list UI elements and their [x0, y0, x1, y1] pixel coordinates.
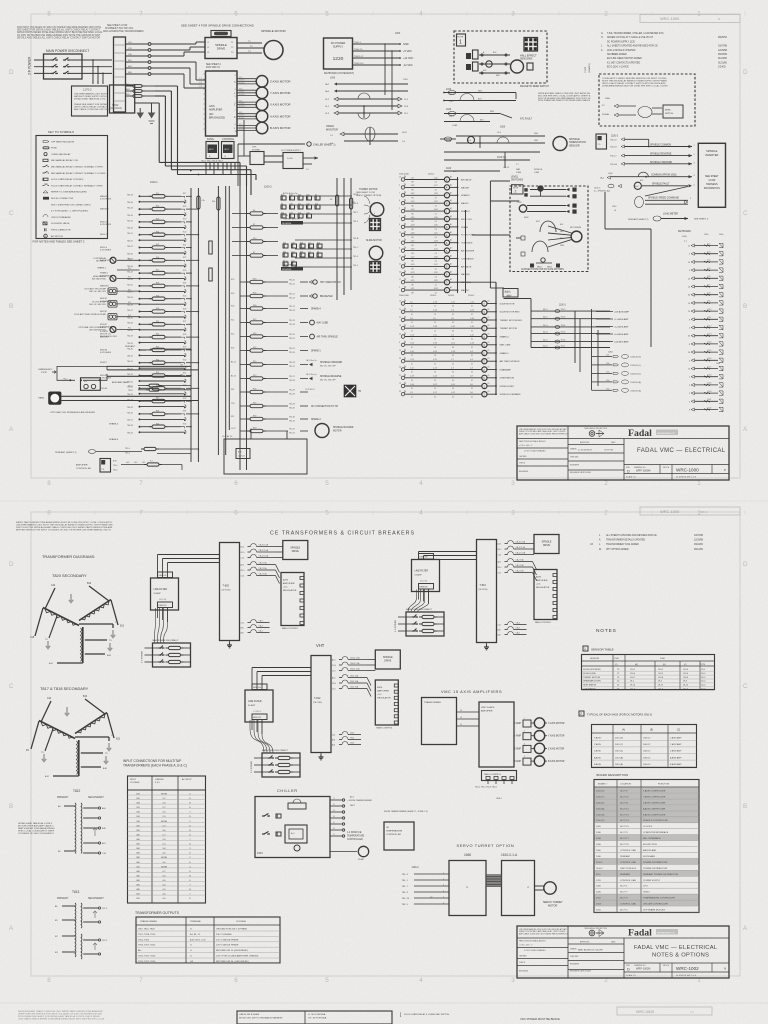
- svg-text:CHK: CHK: [252, 147, 257, 149]
- svg-text:REVERSE: REVERSE: [282, 269, 292, 271]
- svg-text:W2.0: W2.0: [498, 567, 502, 569]
- big outline corner: [604, 192, 606, 229]
- svg-text:K59: K59: [298, 195, 301, 197]
- fang wires to band: [61, 395, 191, 397]
- svg-text:01: 01: [471, 380, 473, 382]
- svg-text:F24: F24: [156, 359, 159, 361]
- svg-text:01: 01: [471, 322, 473, 324]
- secondary vertical winding: [77, 741, 78, 774]
- svg-text:T81-29: T81-29: [289, 394, 295, 396]
- group B row TURRET MOTOR: [401, 327, 404, 330]
- svg-text:(CE K1N6): (CE K1N6): [222, 590, 231, 592]
- mill interface row AIR VALVE: [401, 265, 404, 268]
- svg-text:SERVO TURRET OPTION: SERVO TURRET OPTION: [457, 843, 515, 848]
- svg-text:DL M NO M SHT 1 of 6: DL M NO M SHT 1 of 6: [676, 477, 696, 479]
- svg-text:,0-4 AXIS AMP: ,0-4 AXIS AMP: [614, 333, 629, 336]
- svg-text:REED: REED: [665, 110, 671, 112]
- svg-text:SPARE-5: SPARE-5: [109, 423, 119, 426]
- svg-text:PENDANT: PENDANT: [620, 873, 631, 876]
- group B row ORIENTATION: [401, 376, 404, 379]
- svg-text:3 Φ POWER: 3 Φ POWER: [141, 651, 144, 663]
- svg-text:04: 04: [435, 253, 437, 255]
- svg-text:TURRET MOTOR: TURRET MOTOR: [359, 189, 378, 191]
- svg-text:XFORMER T-812 TAP CFG: XFORMER T-812 TAP CFG: [105, 27, 134, 30]
- secondary taps: [79, 623, 113, 625]
- group B row TURRET MOTOR REV.: [401, 318, 404, 321]
- svg-text:11 4B: 11 4B: [283, 215, 288, 217]
- turret motor M-T: [370, 203, 384, 217]
- svg-text:DO NOT SCALE DRAWING: DO NOT SCALE DRAWING: [524, 949, 546, 952]
- svg-text:01: 01: [471, 339, 473, 341]
- wires disconnect to line filter T-810: [408, 590, 417, 613]
- svg-text:KEYBOARD: KEYBOARD: [643, 855, 656, 858]
- axis amp input wires L1 L2 L3: [198, 79, 206, 81]
- svg-text:1: 1: [689, 377, 690, 379]
- svg-text:20: 20: [688, 278, 690, 280]
- svg-text:PL2: PL2: [128, 328, 131, 330]
- svg-text:J11-4: J11-4: [630, 689, 636, 691]
- svg-text:T81-3: T81-3: [561, 317, 566, 319]
- center vertical buses: [239, 186, 241, 470]
- svg-text:● 1 POPULATED ○ 1 UNPOPULAT: ● 1 POPULATED ○ 1 UNPOPULATED: [51, 210, 89, 213]
- svg-text:2: 2: [604, 11, 608, 18]
- svg-text:M.: M.: [599, 549, 602, 551]
- svg-text:BRAKE/SAF: BRAKE/SAF: [320, 295, 333, 298]
- svg-text:8: 8: [399, 342, 400, 344]
- svg-text:CONNECTIONS FOR DC AXIS MOTORS: CONNECTIONS FOR DC AXIS MOTORS: [521, 268, 564, 271]
- svg-text:K30: K30: [300, 243, 303, 245]
- mill interface row SPARE-Z: [401, 209, 404, 212]
- svg-text:2: 2: [580, 712, 582, 716]
- svg-text:ECO-801 REED SWITCH ADDED: ECO-801 REED SWITCH ADDED: [607, 57, 642, 60]
- T812 primary leads: [64, 805, 75, 807]
- svg-text:MG3/L4: MG3/L4: [100, 247, 108, 249]
- svg-text:6: 6: [689, 270, 690, 272]
- svg-text:,0-B AXIS AMP: ,0-B AXIS AMP: [614, 341, 629, 344]
- svg-text:F10: F10: [253, 238, 256, 240]
- dc motor box C342 circle rows: [519, 205, 526, 212]
- wires line filter up to T-810 input: [418, 552, 420, 560]
- transformer T-820 box: [220, 543, 240, 641]
- svg-text:F29: F29: [156, 423, 159, 425]
- svg-text:CHECKED: CHECKED: [570, 457, 579, 459]
- svg-text:J-15: J-15: [470, 334, 474, 336]
- svg-text:SPINDLE: SPINDLE: [534, 169, 543, 171]
- svg-text:63 AMP: 63 AMP: [154, 592, 162, 595]
- svg-text:1100-2: 1100-2: [264, 186, 272, 189]
- svg-text:CHILLER: CHILLER: [277, 788, 298, 793]
- svg-text:8: 8: [689, 344, 690, 346]
- svg-text:SLIDE MOTOR: SLIDE MOTOR: [283, 265, 298, 267]
- svg-text:J-12: J-12: [410, 359, 414, 361]
- svg-text:M1G/S7: M1G/S7: [100, 324, 107, 326]
- row pair bus links 9: [186, 311, 198, 313]
- svg-text:J10-1: J10-1: [507, 295, 512, 297]
- svg-text:AC-5: AC-5: [543, 339, 547, 342]
- svg-text:ZONE AREA WIRING MUST BE DONE: ZONE AREA WIRING MUST BE DONE PER SPEC L…: [602, 85, 668, 88]
- svg-text:C341010 (Y): C341010 (Y): [630, 365, 641, 367]
- B axis motor M6: [237, 124, 256, 126]
- svg-text:K26: K26: [183, 308, 186, 310]
- svg-text:BRUSHLESS): BRUSHLESS): [209, 117, 225, 120]
- row pair lower wire 3: [141, 239, 185, 241]
- svg-text:TURRET MOTOR REV.: TURRET MOTOR REV.: [500, 320, 523, 322]
- svg-text:F11: F11: [156, 193, 159, 195]
- svg-text:SPINDLE FORWARD: SPINDLE FORWARD: [650, 161, 673, 164]
- svg-text:BLACK: BLACK: [239, 105, 245, 108]
- ACC connector box top: [596, 134, 607, 149]
- secondary vertical winding: [81, 628, 82, 661]
- key symbol row: MECHANICAL RELAY COIL: [43, 159, 48, 161]
- svg-text:C1.0: C1.0: [332, 671, 336, 673]
- svg-text:J10-9: J10-9: [683, 677, 689, 679]
- svg-text:K10: K10: [298, 213, 301, 215]
- svg-text:CB-2 15A: CB-2 15A: [350, 680, 359, 683]
- turret fuse row F6: [232, 213, 248, 215]
- svg-text:T80-44: T80-44: [127, 202, 133, 204]
- svg-text:1860: 1860: [464, 853, 471, 857]
- svg-text:2: 2: [604, 510, 608, 517]
- hall sensor circle: [511, 60, 524, 73]
- mill interface row MAG4(G): [401, 273, 404, 276]
- key symbol row: OVERLOAD RELAY: [44, 153, 47, 156]
- svg-text:11: 11: [399, 256, 401, 258]
- svg-text:ALL SHEETS UPDATED AND REVISED: ALL SHEETS UPDATED AND REVISED FOR CE: [607, 45, 658, 48]
- svg-text:A1.0: A1.0: [332, 659, 336, 662]
- svg-text:AIR VALVE: AIR VALVE: [461, 178, 472, 181]
- svg-text:AMP CABLE CONN USE ONLY RATED: AMP CABLE CONN USE ONLY RATED PARTS REFE…: [519, 432, 568, 435]
- svg-text:04: 04: [452, 363, 454, 365]
- svg-text:J-27: J-27: [434, 185, 438, 187]
- svg-text:K14: K14: [283, 243, 286, 245]
- T813 transformer symbol: [74, 903, 77, 957]
- svg-text:KEYBOARD: KEYBOARD: [678, 230, 691, 233]
- svg-text:21: 21: [399, 375, 401, 377]
- svg-text:MID ON - MID OFF: MID ON - MID OFF: [320, 380, 337, 382]
- svg-text:CB-3: CB-3: [350, 738, 354, 740]
- row pair lower wire 8: [141, 303, 185, 305]
- svg-text:J-33: J-33: [411, 193, 415, 195]
- svg-text:J5: J5: [333, 822, 335, 824]
- svg-text:SPINDLE FORWARD: SPINDLE FORWARD: [500, 393, 521, 396]
- svg-text:VMC 15 AXIS AMPLIFIERS: VMC 15 AXIS AMPLIFIERS: [441, 689, 502, 694]
- key symbol row: MOLEX CONNECTOR: [43, 197, 49, 200]
- svg-text:+5 VDC: +5 VDC: [403, 50, 412, 53]
- svg-text:REGULATOR: REGULATOR: [536, 586, 550, 589]
- svg-text:BEFORE SERVICE FOR INPUT VOLTA: BEFORE SERVICE FOR INPUT VOLTAGES OF 400…: [16, 529, 111, 532]
- svg-text:1A 53 Snu.Tip: 1A 53 Snu.Tip: [306, 359, 317, 362]
- svg-text:RETURN FOR 15 (GROUNDED): RETURN FOR 15 (GROUNDED): [216, 950, 248, 952]
- svg-text:K8: K8: [317, 252, 319, 254]
- svg-text:T80-24: T80-24: [127, 272, 133, 274]
- svg-text:MILL INTERFACE: MILL INTERFACE: [643, 837, 661, 840]
- svg-text:1010 (Y): 1010 (Y): [596, 797, 605, 799]
- svg-text:J-15: J-15: [451, 384, 455, 386]
- svg-text:J-16: J-16: [410, 384, 414, 386]
- svg-text:T81-7: T81-7: [561, 346, 566, 348]
- svg-text:MECHANICAL RELAY CONTACT NORMA: MECHANICAL RELAY CONTACT NORMALLY OPEN: [51, 166, 103, 169]
- secondary right diagonal winding: [81, 601, 109, 620]
- svg-text:Z AXIS MOTOR: Z AXIS MOTOR: [270, 79, 290, 83]
- svg-text:04: 04: [452, 314, 454, 316]
- svg-text:MAGNETIC REED SWITCH: MAGNETIC REED SWITCH: [520, 85, 549, 88]
- svg-text:FUNCTION: FUNCTION: [658, 784, 670, 786]
- key symbol row: FUSE: [43, 147, 49, 149]
- svg-text:J-35: J-35: [434, 272, 438, 274]
- svg-text:B16: B16: [83, 696, 88, 698]
- svg-text:T80-35: T80-35: [127, 412, 133, 414]
- svg-text:REGULATOR: REGULATOR: [377, 697, 391, 700]
- svg-text:20: 20: [399, 309, 401, 311]
- secondary leads: [45, 588, 55, 609]
- svg-text:(SPARES): (SPARES): [588, 63, 591, 73]
- group B dot bus vertical: [495, 282, 497, 394]
- svg-text:K22: K22: [183, 257, 186, 259]
- vertical fuses on buses: [197, 196, 200, 209]
- svg-text:30: 30: [688, 295, 690, 297]
- svg-text:01: 01: [471, 306, 473, 308]
- svg-text:04: 04: [452, 347, 454, 349]
- svg-text:12S V FOR DC AXIS AMPLIFIER CH: 12S V FOR DC AXIS AMPLIFIER CHASSIS: [216, 955, 259, 958]
- svg-text:T81-21: T81-21: [289, 284, 295, 286]
- axis amplifier box T-810: [534, 570, 557, 620]
- svg-text:T81-3: T81-3: [353, 256, 358, 258]
- svg-text:1: 1: [697, 480, 701, 487]
- svg-text:F19: F19: [156, 295, 159, 297]
- svg-text:MAG4/R: MAG4/R: [461, 186, 469, 189]
- svg-text:1100-1 DETAILS UPDATED: 1100-1 DETAILS UPDATED: [607, 49, 636, 52]
- svg-text:1010 (A): 1010 (A): [596, 807, 605, 810]
- svg-text:RELEASED DATE ISSUED: RELEASED DATE ISSUED: [570, 970, 592, 973]
- svg-text:Y AXIS CONTROLLER: Y AXIS CONTROLLER: [643, 796, 666, 799]
- svg-text:1040: 1040: [614, 658, 620, 660]
- svg-text:6: 6: [399, 248, 400, 250]
- svg-text:MONITOR: MONITOR: [326, 129, 338, 132]
- svg-text:WRC-1000: WRC-1000: [660, 16, 680, 21]
- svg-text:PL2: PL2: [128, 277, 131, 279]
- transformer T-812 box: [311, 656, 331, 753]
- svg-text:K2: K2: [309, 243, 311, 245]
- svg-text:SIGNAL: SIGNAL: [602, 113, 610, 116]
- svg-text:K35: K35: [183, 424, 186, 426]
- svg-text:A AXIS CONTROLLER: A AXIS CONTROLLER: [643, 807, 666, 810]
- svg-text:J-25: J-25: [434, 248, 438, 250]
- svg-text:K5: K5: [488, 391, 490, 393]
- svg-text:SECONDARY: SECONDARY: [88, 897, 104, 900]
- svg-text:J-26: J-26: [434, 217, 438, 219]
- svg-text:DRIVE: DRIVE: [384, 661, 391, 663]
- svg-text:C18: C18: [30, 637, 35, 639]
- svg-text:T80-22: T80-22: [127, 246, 133, 248]
- svg-text:J5-6: J5-6: [497, 132, 501, 134]
- svg-text:F20: F20: [253, 278, 256, 280]
- svg-text:1: 1: [524, 718, 525, 720]
- svg-text:T80-32: T80-32: [127, 356, 133, 358]
- svg-text:SLOT 9: SLOT 9: [620, 898, 628, 900]
- svg-text:J-3: J-3: [451, 376, 454, 378]
- svg-text:04: 04: [435, 292, 437, 294]
- svg-text:K21: K21: [183, 244, 186, 246]
- svg-text:T81-5: T81-5: [353, 221, 358, 223]
- svg-text:T80-33: T80-33: [127, 343, 133, 345]
- svg-text:F20: F20: [156, 308, 159, 310]
- svg-text:STOP: STOP: [41, 372, 47, 374]
- svg-text:MOT: MOT: [225, 149, 230, 151]
- svg-text:M16/S7: M16/S7: [100, 362, 107, 364]
- svg-text:J-21: J-21: [411, 288, 415, 290]
- amp connector pin drops: [205, 163, 207, 175]
- svg-text:1: 1: [443, 872, 444, 874]
- svg-text:FOR VMC 15: FOR VMC 15: [206, 67, 221, 69]
- svg-text:CHILLER CONTROLLER: CHILLER CONTROLLER: [643, 904, 668, 906]
- svg-text:NO CONNECTION TO TB: NO CONNECTION TO TB: [311, 406, 338, 408]
- svg-text:T80-25: T80-25: [127, 284, 133, 286]
- svg-text:BLACK: BLACK: [239, 93, 245, 96]
- svg-text:T80-27: T80-27: [127, 310, 133, 312]
- transformer T-812 input box: [114, 37, 126, 112]
- secondary left diagonal winding: [41, 722, 73, 738]
- svg-text:GROUND FOR 240 V 3-PHASE: GROUND FOR 240 V 3-PHASE: [216, 928, 248, 931]
- svg-text:ECO-1124, 1-124/CE: ECO-1124, 1-124/CE: [607, 67, 629, 69]
- svg-text:CB-12 2.5A: CB-12 2.5A: [516, 552, 526, 555]
- svg-text:SWITCH: SWITCH: [665, 113, 674, 115]
- svg-text:AMP CABLE CONN USE ONLY RATED: AMP CABLE CONN USE ONLY RATED PARTS REFE…: [519, 932, 568, 935]
- svg-text:NOTES & OPTIONS: NOTES & OPTIONS: [652, 953, 709, 959]
- svg-text:J10-3: J10-3: [683, 669, 689, 671]
- svg-text:1045: 1045: [446, 141, 452, 143]
- svg-text:11-27 A3 3.4: 11-27 A3 3.4: [222, 435, 232, 438]
- svg-text:G : NO FOR MSA: G : NO FOR MSA: [308, 1013, 326, 1016]
- svg-text:J-11: J-11: [410, 367, 414, 369]
- svg-text:7: 7: [139, 480, 143, 487]
- svg-text:ONLY RATED PARTS REFER ZONE AR: ONLY RATED PARTS REFER ZONE AREA WIRING …: [18, 1018, 104, 1021]
- svg-text:AXIS: AXIS: [377, 686, 383, 689]
- svg-text:F25: F25: [231, 416, 234, 418]
- svg-text:F12: F12: [253, 319, 256, 321]
- svg-text:J-22: J-22: [434, 264, 438, 266]
- svg-text:REV 2: REV 2: [700, 511, 708, 514]
- svg-text:T80-42: T80-42: [127, 228, 133, 230]
- svg-text:06/18/99: 06/18/99: [718, 54, 728, 56]
- svg-text:K5: K5: [488, 342, 490, 344]
- svg-text:1: 1: [459, 40, 462, 46]
- svg-text:J2: J2: [333, 804, 335, 806]
- svg-text:VMC 15 AXIS: VMC 15 AXIS: [481, 706, 495, 709]
- svg-text:T80-26: T80-26: [127, 297, 133, 299]
- svg-text:8: 8: [47, 480, 51, 487]
- svg-text:AMPLIFIER: AMPLIFIER: [283, 582, 295, 585]
- svg-text:01: 01: [411, 388, 413, 390]
- svg-text:T81-25: T81-25: [289, 338, 295, 340]
- svg-text:SLOT 8: SLOT 8: [620, 832, 628, 834]
- svg-text:A-C: A-C: [291, 832, 295, 835]
- note 1 tag: [457, 34, 466, 46]
- input voltage jumper table: [128, 776, 206, 903]
- svg-text:T812, T820: T812, T820: [138, 939, 150, 941]
- svg-text:MG5/S2: MG5/S2: [100, 375, 107, 377]
- svg-text:T80/13-14: T80/13-14: [354, 63, 364, 65]
- svg-text:T81-22: T81-22: [289, 298, 295, 300]
- svg-text:DC POWER SUPPLY 1220: DC POWER SUPPLY 1220: [607, 41, 636, 43]
- svg-text:F7: F7: [253, 252, 255, 254]
- svg-text:J1: J1: [333, 798, 335, 800]
- svg-text:T81-32: T81-32: [289, 433, 295, 435]
- svg-text:AC-4: AC-4: [543, 331, 547, 334]
- secondary right diagonal winding: [77, 714, 105, 733]
- svg-text:T80-19: T80-19: [127, 208, 133, 210]
- svg-text:LOAD METER: LOAD METER: [663, 213, 678, 216]
- svg-text:CB-2 15A: CB-2 15A: [516, 570, 525, 573]
- svg-text:DRIVE: DRIVE: [217, 47, 226, 51]
- spindle drive box T-820: [283, 541, 308, 560]
- svg-text:SPARE-4: SPARE-4: [311, 308, 321, 311]
- svg-text:CB-11 2.5A: CB-11 2.5A: [350, 662, 360, 665]
- svg-text:SLOT 17: SLOT 17: [620, 838, 629, 840]
- svg-text:01: 01: [411, 355, 413, 357]
- svg-text:J-3: J-3: [470, 367, 473, 369]
- svg-text:1100-2: 1100-2: [596, 868, 603, 870]
- svg-text:TYPE: TYPE: [700, 664, 706, 666]
- svg-text:04: 04: [452, 380, 454, 382]
- svg-text:1010 (Y): 1010 (Y): [615, 744, 623, 746]
- svg-text:C-5: C-5: [598, 144, 601, 146]
- svg-text:MAG4/S3: MAG4/S3: [100, 208, 108, 211]
- svg-text:P: P: [724, 468, 726, 472]
- svg-text:F23: F23: [156, 347, 159, 349]
- svg-text:2: 2: [374, 204, 375, 206]
- svg-text:C: C: [9, 683, 14, 690]
- T813 leads: [62, 905, 75, 907]
- svg-text:J10-5: J10-5: [658, 673, 664, 675]
- svg-text:04: 04: [435, 221, 437, 223]
- svg-text:CONTROL CAB.: CONTROL CAB.: [620, 903, 637, 906]
- svg-text:1010 (B): 1010 (B): [596, 814, 605, 816]
- board description table: [594, 780, 699, 913]
- svg-text:SENSOR TABLE: SENSOR TABLE: [591, 648, 614, 652]
- svg-text:J10-8: J10-8: [658, 677, 664, 679]
- svg-text:A2.0: A2.0: [241, 564, 245, 567]
- svg-text:B: B: [743, 803, 747, 810]
- svg-text:11 4B: 11 4B: [283, 261, 288, 263]
- svg-text:C2.0: C2.0: [332, 689, 336, 691]
- svg-text:5: 5: [325, 977, 329, 984]
- svg-text:J-25: J-25: [434, 233, 438, 235]
- dc axis motor connections dashed box: [510, 186, 588, 272]
- line filter for T-820: [151, 578, 179, 610]
- svg-text:G: G: [190, 945, 192, 947]
- svg-text:30: 30: [688, 336, 690, 338]
- svg-text:J-30: J-30: [434, 256, 438, 258]
- svg-text:J4-3: J4-3: [126, 462, 129, 464]
- svg-text:04: 04: [452, 339, 454, 341]
- svg-text:(C): (C): [677, 730, 680, 732]
- svg-text:REMOVE: REMOVE: [420, 587, 429, 589]
- svg-text:BLACK: BLACK: [239, 128, 245, 131]
- svg-text:10: 10: [434, 363, 436, 365]
- key symbol row: MECHANICAL RELAY CONTACT: [43, 166, 45, 168]
- svg-text:10: 10: [434, 396, 436, 398]
- svg-text:SLOT 11: SLOT 11: [620, 802, 629, 804]
- svg-text:VOLTAGE: VOLTAGE: [236, 920, 246, 923]
- svg-text:SPARE-J: SPARE-J: [100, 272, 108, 275]
- svg-text:K24: K24: [290, 213, 293, 215]
- svg-text:J-12: J-12: [410, 343, 414, 345]
- svg-text:SPINDLE REV.: SPINDLE REV.: [500, 386, 515, 388]
- svg-text:K5: K5: [488, 383, 490, 385]
- svg-text:A1 53: A1 53: [231, 361, 236, 364]
- svg-text:T80-41: T80-41: [127, 241, 133, 243]
- svg-text:12: 12: [688, 369, 690, 371]
